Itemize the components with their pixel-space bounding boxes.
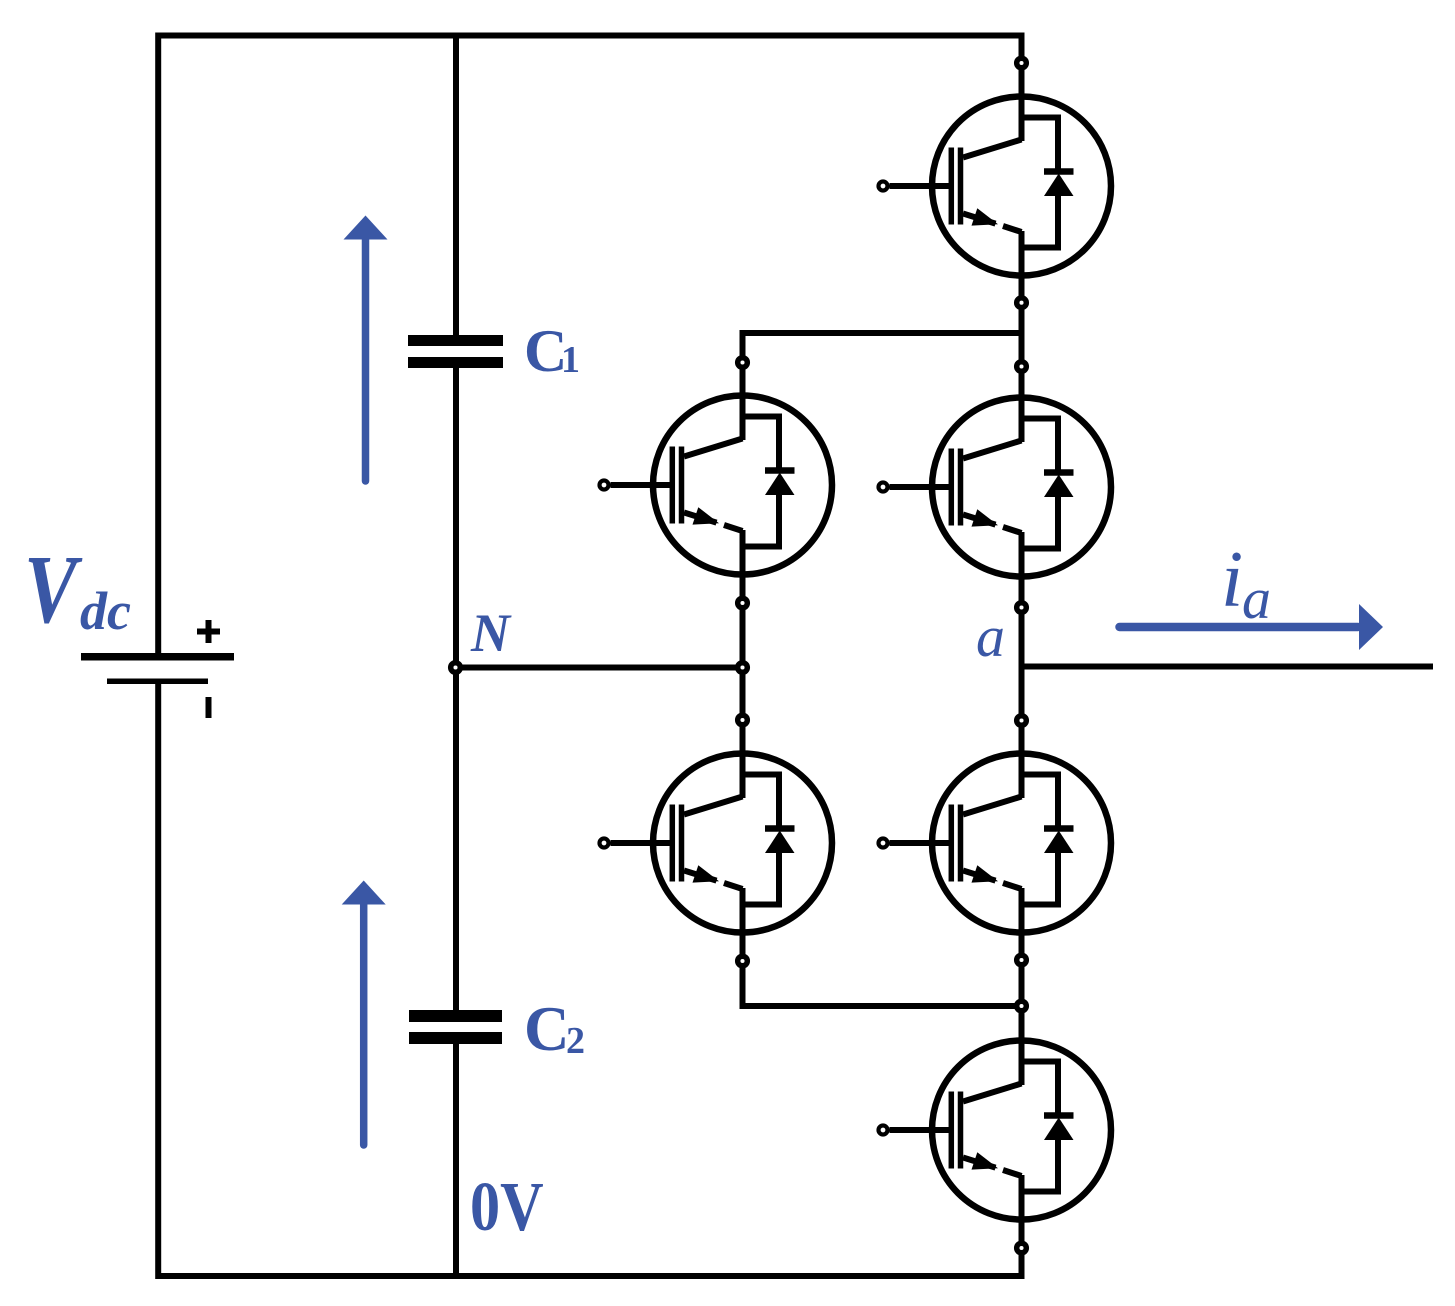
wire: top rail and upper left rail bbox=[158, 36, 1021, 655]
capacitor C1 top plate bbox=[408, 335, 503, 346]
wire: clamp corner down to S5 bbox=[740, 330, 746, 440]
svg-text:V: V bbox=[24, 537, 83, 644]
svg-text:1: 1 bbox=[561, 339, 580, 381]
svg-text:i: i bbox=[1221, 536, 1243, 624]
node a below S2 bbox=[1017, 603, 1027, 613]
wire: middle bus top segment bbox=[453, 33, 459, 337]
node above S6 bbox=[738, 715, 748, 725]
wire: neutral N horizontal bbox=[456, 665, 743, 671]
battery plus sign bbox=[197, 620, 220, 643]
wire: S3 emitter to S4 collector bbox=[1019, 888, 1025, 1085]
svg-text:N: N bbox=[470, 603, 512, 663]
battery minus sign bbox=[206, 697, 212, 718]
IGBT module S6 lower clamp bbox=[600, 751, 833, 935]
arrow: C2 voltage direction bbox=[342, 881, 386, 1146]
arrow: C1 voltage direction bbox=[344, 216, 388, 482]
capacitor C2 bottom plate bbox=[409, 1032, 502, 1044]
node below S6 bbox=[738, 956, 748, 966]
node below S5 bbox=[738, 598, 748, 608]
svg-text:0V: 0V bbox=[470, 1169, 544, 1246]
wire: S2 emitter to S3 collector bbox=[1019, 532, 1025, 798]
IGBT module S1 top bbox=[879, 94, 1112, 278]
wire: middle bus bottom segment bbox=[453, 1043, 459, 1279]
capacitor C2 top plate bbox=[409, 1010, 502, 1022]
node above S5 bbox=[738, 358, 748, 368]
node N junction left column bbox=[738, 663, 748, 673]
wire: S4 emitter to bottom rail bbox=[1019, 1175, 1025, 1279]
wire: middle bus between C1 and C2 bbox=[453, 367, 459, 1011]
arrow: output current ia bbox=[1120, 604, 1384, 650]
capacitor C1 bottom plate bbox=[408, 357, 503, 368]
wire: bottom clamp horizontal bbox=[743, 1003, 1022, 1009]
node above S2 bbox=[1017, 362, 1027, 372]
IGBT module S5 upper clamp bbox=[600, 393, 833, 577]
node below S4 bbox=[1017, 1243, 1027, 1253]
battery Vdc negative plate bbox=[107, 679, 208, 685]
battery Vdc positive plate bbox=[81, 653, 234, 661]
svg-text:C: C bbox=[524, 994, 570, 1064]
svg-text:a: a bbox=[976, 604, 1005, 669]
wire: lower left rail and bottom rail bbox=[158, 683, 1021, 1276]
IGBT module S2 upper right bbox=[879, 395, 1112, 579]
node below S3 bbox=[1017, 955, 1027, 965]
svg-text:2: 2 bbox=[566, 1020, 585, 1062]
wire: S6 emitter to clamp corner bbox=[740, 888, 746, 1009]
node below S1 bbox=[1017, 298, 1027, 308]
svg-text:a: a bbox=[1242, 566, 1271, 631]
wire: S1 drop from top rail bbox=[1019, 33, 1025, 142]
IGBT module S4 bottom bbox=[879, 1038, 1112, 1222]
svg-text:dc: dc bbox=[80, 581, 131, 641]
node clamp bottom junction bbox=[1017, 1001, 1027, 1011]
wire: S5 emitter to S6 collector bbox=[740, 530, 746, 798]
wire: S1 emitter to S2 collector bbox=[1019, 231, 1025, 442]
IGBT module S3 lower right bbox=[879, 751, 1112, 935]
node above S1 bbox=[1017, 58, 1027, 68]
node N on middle bus bbox=[451, 663, 461, 673]
wire: top clamp horizontal bbox=[743, 330, 1022, 336]
node above S3 bbox=[1017, 716, 1027, 726]
wire: output phase a bbox=[1022, 664, 1434, 670]
